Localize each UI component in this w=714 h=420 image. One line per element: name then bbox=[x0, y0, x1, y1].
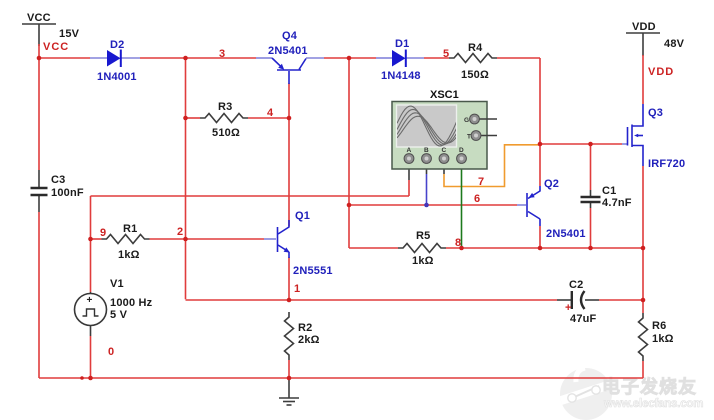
svg-text:C: C bbox=[442, 147, 447, 154]
resistor R4 150ohm bbox=[449, 42, 497, 81]
wire top rail node 3 segments bbox=[38, 44, 40, 58]
svg-text:6: 6 bbox=[474, 193, 480, 205]
wire node 2 horizontal bbox=[91, 238, 102, 240]
svg-text:2N5401: 2N5401 bbox=[268, 45, 308, 57]
wire branch at x349 bbox=[348, 58, 350, 248]
scope terminal G bbox=[479, 118, 497, 120]
MOSFET Q3 IRF720 bbox=[622, 104, 685, 170]
junction node 4 at R3 left bbox=[183, 116, 188, 121]
svg-text:1kΩ: 1kΩ bbox=[652, 333, 674, 345]
power symbol VCC bbox=[22, 12, 80, 46]
svg-text:48V: 48V bbox=[664, 38, 685, 50]
svg-text:VDD: VDD bbox=[648, 66, 674, 78]
svg-text:5 V: 5 V bbox=[110, 309, 128, 321]
svg-text:D: D bbox=[459, 147, 464, 154]
svg-text:R1: R1 bbox=[123, 223, 137, 235]
ground bbox=[279, 378, 299, 405]
power symbol VDD bbox=[626, 21, 685, 56]
svg-text:4.7nF: 4.7nF bbox=[602, 197, 632, 209]
junction node 8 at Q3 source column bbox=[641, 246, 646, 251]
diode D1 1N4148 bbox=[376, 38, 424, 82]
svg-text:VCC: VCC bbox=[27, 12, 51, 24]
junction node 0 at ground bbox=[287, 376, 292, 381]
junction node 8 at C1 bottom bbox=[588, 246, 593, 251]
svg-text:D2: D2 bbox=[110, 39, 124, 51]
wire scope B channel bbox=[426, 160, 428, 174]
resistor R2 2kohm bbox=[285, 312, 320, 360]
svg-text:Q2: Q2 bbox=[544, 178, 559, 190]
svg-text:Q4: Q4 bbox=[282, 30, 298, 42]
svg-text:1N4148: 1N4148 bbox=[381, 70, 421, 82]
svg-text:7: 7 bbox=[478, 176, 484, 188]
wire Q3 source down right column bbox=[642, 166, 644, 313]
svg-text:1N4001: 1N4001 bbox=[97, 71, 137, 83]
capacitor C3 100nF bbox=[31, 170, 84, 212]
svg-text:电子发烧友: 电子发烧友 bbox=[602, 376, 697, 397]
resistor R3 510ohm bbox=[200, 101, 248, 139]
wire Q2 collector down bbox=[539, 226, 541, 248]
svg-text:150Ω: 150Ω bbox=[461, 69, 489, 81]
wire VCC vertical bbox=[38, 58, 40, 170]
wire Q4 base vertical bbox=[288, 83, 290, 118]
junction node 3 left branch bbox=[183, 56, 188, 61]
wire gate line node 7 bbox=[540, 143, 622, 145]
resistor R5 1kohm bbox=[398, 230, 446, 267]
transistor Q1 2N5551 bbox=[264, 210, 333, 277]
wire node 6 horizontal bbox=[349, 204, 517, 206]
wire node 9 vertical V1 bbox=[90, 196, 92, 292]
junction node VCC top bbox=[37, 56, 42, 61]
resistor R6 1kohm bbox=[639, 313, 674, 361]
svg-text:IRF720: IRF720 bbox=[648, 158, 685, 170]
svg-text:C1: C1 bbox=[602, 185, 616, 197]
wire node 4 horizontal bbox=[186, 117, 201, 119]
svg-text:5: 5 bbox=[443, 48, 449, 60]
transistor Q4 2N5401 bbox=[256, 30, 324, 84]
svg-text:Q3: Q3 bbox=[648, 107, 663, 119]
svg-text:B: B bbox=[424, 147, 429, 154]
svg-text:R4: R4 bbox=[468, 42, 483, 54]
svg-text:100nF: 100nF bbox=[51, 187, 84, 199]
svg-text:C3: C3 bbox=[51, 174, 65, 186]
svg-text:4: 4 bbox=[267, 107, 274, 119]
junction node 9 bbox=[88, 237, 93, 242]
svg-text:2kΩ: 2kΩ bbox=[298, 334, 320, 346]
svg-text:V1: V1 bbox=[110, 278, 124, 290]
svg-text:XSC1: XSC1 bbox=[430, 89, 459, 101]
svg-text:1kΩ: 1kΩ bbox=[118, 249, 140, 261]
svg-text:9: 9 bbox=[100, 227, 106, 239]
svg-text:1000 Hz: 1000 Hz bbox=[110, 297, 153, 309]
svg-text:+: + bbox=[87, 295, 93, 306]
wire scope C channel orange node 7 bbox=[443, 160, 445, 174]
junction node 0 stray dot bbox=[80, 376, 84, 380]
svg-text:Q1: Q1 bbox=[295, 210, 310, 222]
transistor Q2 2N5401 bbox=[517, 178, 586, 240]
svg-text:T: T bbox=[467, 134, 471, 141]
svg-text:R5: R5 bbox=[416, 230, 430, 242]
wire C1 bottom vertical bbox=[590, 208, 592, 248]
svg-text:0: 0 bbox=[108, 346, 114, 358]
svg-text:R3: R3 bbox=[218, 101, 232, 113]
svg-text:15V: 15V bbox=[59, 28, 80, 40]
svg-text:C2: C2 bbox=[569, 279, 583, 291]
oscilloscope XSC1 bbox=[392, 89, 497, 169]
junction node 1 at R2 top bbox=[287, 298, 292, 303]
resistor R1 1kohm bbox=[102, 223, 150, 261]
svg-text:VDD: VDD bbox=[632, 21, 656, 33]
wire Q1 emitter to R2 bbox=[288, 257, 290, 300]
junction dot B probe bbox=[424, 203, 429, 208]
wire node 1 horizontal bbox=[186, 299, 558, 301]
wire node3 vertical to R3 and node1 bbox=[185, 58, 187, 299]
watermark logo circle bbox=[559, 368, 615, 420]
wire scope D channel green node 8 bbox=[461, 160, 463, 168]
svg-text:3: 3 bbox=[219, 48, 225, 60]
svg-text:VCC: VCC bbox=[43, 41, 69, 53]
capacitor C2 47uF bbox=[557, 279, 599, 325]
svg-text:G: G bbox=[464, 117, 469, 124]
junction node 3 right branch bbox=[347, 56, 352, 61]
svg-text:510Ω: 510Ω bbox=[212, 127, 240, 139]
svg-text:47uF: 47uF bbox=[570, 313, 597, 325]
svg-text:2N5551: 2N5551 bbox=[293, 265, 333, 277]
wire scope A channel bbox=[91, 195, 410, 197]
svg-text:2: 2 bbox=[177, 226, 183, 238]
svg-text:A: A bbox=[407, 147, 412, 154]
diode D2 1N4001 bbox=[90, 39, 140, 83]
svg-text:www.elecfans.com: www.elecfans.com bbox=[603, 398, 703, 410]
source V1 bbox=[75, 278, 153, 336]
svg-text:D1: D1 bbox=[395, 38, 409, 50]
scope terminal T bbox=[480, 135, 497, 137]
svg-text:R6: R6 bbox=[652, 320, 666, 332]
junction node 0 at V1 bbox=[88, 376, 93, 381]
wire R4 to corner down Q2 emitter bbox=[539, 58, 541, 186]
junction node 7 at C1 top bbox=[588, 142, 593, 147]
scope terminals A B C D bbox=[404, 147, 466, 163]
wire VDD to Q3 drain bbox=[642, 55, 644, 104]
junction node 8 at Q2 collector bbox=[538, 246, 543, 251]
svg-text:1: 1 bbox=[294, 283, 300, 295]
svg-text:R2: R2 bbox=[298, 322, 312, 334]
junction node 7 at Q2 emitter column bbox=[538, 142, 543, 147]
junction node 6 bbox=[347, 203, 352, 208]
capacitor C1 4.7nF bbox=[581, 185, 632, 209]
junction node 1 at R6 top bbox=[641, 298, 646, 303]
svg-text:2N5401: 2N5401 bbox=[546, 228, 586, 240]
junction node 4 at Q4 base bbox=[287, 116, 292, 121]
svg-text:1kΩ: 1kΩ bbox=[412, 255, 434, 267]
wire bottom ground rail node 0 bbox=[39, 377, 643, 379]
junction node 8 at probe D bbox=[459, 246, 464, 251]
wire node 8 horizontal bbox=[349, 247, 398, 249]
junction node 2 bbox=[183, 237, 188, 242]
wire C1 top vertical bbox=[590, 144, 592, 190]
